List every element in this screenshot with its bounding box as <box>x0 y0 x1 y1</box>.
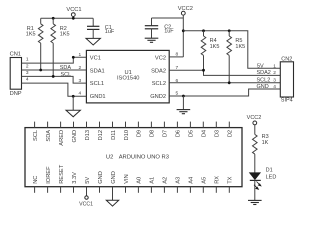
svg-text:A5: A5 <box>202 177 208 184</box>
svg-text:VCC2: VCC2 <box>247 115 262 121</box>
node VCC1 (bottom, at U2 5V pin) <box>85 196 88 199</box>
svg-text:TX: TX <box>228 176 234 183</box>
svg-text:VC2: VC2 <box>155 55 166 61</box>
ground below U1 GND1 <box>66 110 80 117</box>
svg-text:1: 1 <box>273 63 276 69</box>
svg-text:GND1: GND1 <box>90 94 106 100</box>
svg-text:SDA2: SDA2 <box>257 70 271 76</box>
junction R5 top <box>228 29 231 32</box>
svg-text:SCL: SCL <box>60 72 71 78</box>
U2 bottom pin GND <box>99 187 101 193</box>
wire CN1 pin4 to U1 GND1 <box>22 83 87 96</box>
op-amp U1 ISO1540 body <box>86 50 169 103</box>
svg-text:1K5: 1K5 <box>210 44 220 50</box>
svg-text:GND2: GND2 <box>150 94 166 100</box>
svg-text:1K: 1K <box>262 140 269 146</box>
svg-text:A4: A4 <box>189 177 195 184</box>
svg-text:4: 4 <box>26 77 29 83</box>
svg-text:SCL: SCL <box>33 130 39 141</box>
wire U1 GND2 pin5 to CN2 <box>169 89 280 96</box>
mcu U2 ARDUINO UNO R3 body <box>25 128 242 187</box>
svg-text:1K5: 1K5 <box>235 44 245 50</box>
svg-text:A0: A0 <box>137 177 143 184</box>
svg-text:D7: D7 <box>163 130 169 137</box>
U2 bottom pin A3 <box>176 187 178 193</box>
svg-text:ARDUINO UNO R3: ARDUINO UNO R3 <box>119 155 169 161</box>
svg-text:IOREF: IOREF <box>46 166 52 184</box>
svg-text:D2: D2 <box>228 130 234 137</box>
svg-text:D13: D13 <box>85 130 91 140</box>
svg-text:3.3V: 3.3V <box>72 172 78 184</box>
svg-text:D3: D3 <box>215 130 221 137</box>
svg-text:A3: A3 <box>176 177 182 184</box>
U2 top pin SDA <box>47 122 49 128</box>
U2 top pin D12 <box>99 122 101 128</box>
ground below C1 <box>86 38 100 45</box>
junction VC1 node <box>72 56 75 59</box>
ground below D1 <box>248 199 262 201</box>
svg-text:5V: 5V <box>257 63 264 69</box>
U2 top pin D11 <box>112 122 114 128</box>
svg-text:VCC1: VCC1 <box>66 7 81 13</box>
connector CN2 <box>280 62 293 97</box>
U2 top pin D4 <box>202 122 204 128</box>
svg-text:D6: D6 <box>176 130 182 137</box>
wire SDA net CN1 pin2 to U1 SDA1 <box>22 69 87 71</box>
svg-text:CN1: CN1 <box>10 51 21 57</box>
U2 top pin D3 <box>215 122 217 128</box>
U2 top pin D7 <box>163 122 165 128</box>
svg-text:RESET: RESET <box>59 164 65 183</box>
svg-text:VCC2: VCC2 <box>178 6 193 12</box>
wire C2 to VCC2 <box>152 17 184 19</box>
ground below U1 GND2 <box>177 109 191 111</box>
svg-text:1K5: 1K5 <box>26 31 36 37</box>
svg-text:LED: LED <box>266 175 277 181</box>
svg-text:GND: GND <box>257 84 269 90</box>
U2 bottom pin GND <box>112 187 114 201</box>
U2 bottom pin A5 <box>202 187 204 193</box>
resistor R2 <box>52 18 54 24</box>
U2 bottom pin A0 <box>137 187 139 193</box>
junction R5 bottom <box>228 81 231 84</box>
U2 bottom pin A2 <box>163 187 165 193</box>
U2 bottom pin TX <box>228 187 230 193</box>
wire U1 SDA2 pin7 to CN2 <box>169 70 280 75</box>
U2 top pin D5 <box>189 122 191 128</box>
svg-text:3: 3 <box>273 77 276 83</box>
U2 bottom pin 5V <box>86 187 88 196</box>
U2 bottom pin NC <box>34 187 36 193</box>
wire GND2 down <box>182 96 184 109</box>
svg-text:4: 4 <box>273 84 276 90</box>
svg-text:RX: RX <box>215 176 221 184</box>
U2 top pin ARED <box>60 122 62 128</box>
svg-text:D12: D12 <box>98 130 104 140</box>
resistor R4 <box>203 31 205 36</box>
svg-text:ISO1540: ISO1540 <box>117 76 139 82</box>
junction on VCC1 rail at R2 <box>52 17 55 20</box>
svg-text:GND: GND <box>111 171 117 184</box>
svg-text:SDA2: SDA2 <box>151 68 166 74</box>
svg-text:2: 2 <box>26 63 29 69</box>
svg-text:3: 3 <box>26 70 29 76</box>
U2 bottom pin IOREF <box>47 187 49 193</box>
junction VCC2 vertical <box>182 29 185 32</box>
junction on VCC1 rail at VCC1 lead <box>72 17 75 20</box>
U2 top pin D8 <box>150 122 152 128</box>
U2 top pin SCL <box>34 122 36 128</box>
U2 bottom pin A1 <box>150 187 152 193</box>
resistor R1 <box>40 18 42 24</box>
U2 top pin D2 <box>228 122 230 128</box>
svg-text:SIP4: SIP4 <box>281 98 293 104</box>
svg-text:D10: D10 <box>124 130 130 140</box>
svg-text:SCL2: SCL2 <box>257 77 271 83</box>
svg-text:5V: 5V <box>85 177 91 184</box>
wire U1 SCL2 pin6 to CN2 <box>169 82 280 84</box>
junction R4 top <box>202 29 205 32</box>
svg-text:GND: GND <box>72 130 78 143</box>
U2 bottom pin 3.3V <box>73 187 75 193</box>
svg-text:DNP: DNP <box>10 91 22 97</box>
svg-text:SCL2: SCL2 <box>152 81 166 87</box>
resistor R3 <box>253 134 258 154</box>
U2 bottom pin A4 <box>189 187 191 193</box>
svg-text:VC1: VC1 <box>90 55 101 61</box>
svg-text:U2: U2 <box>106 155 113 161</box>
svg-text:1uF: 1uF <box>164 28 174 34</box>
svg-text:D11: D11 <box>111 130 117 140</box>
svg-text:A2: A2 <box>163 177 169 184</box>
junction R4 bottom <box>202 69 205 72</box>
svg-text:CN2: CN2 <box>281 56 292 62</box>
ground below C2 <box>145 37 159 39</box>
wire GND1 down <box>72 96 74 110</box>
capacitor C2 <box>151 18 153 25</box>
U2 top pin D6 <box>176 122 178 128</box>
capacitor C1 <box>92 18 94 26</box>
svg-text:SDA1: SDA1 <box>90 68 105 74</box>
svg-text:D1: D1 <box>266 168 273 174</box>
svg-text:D5: D5 <box>189 130 195 137</box>
svg-text:SDA: SDA <box>46 130 52 142</box>
svg-text:4: 4 <box>78 91 81 97</box>
connector CN1 <box>10 58 21 90</box>
resistor R5 <box>228 31 230 36</box>
svg-text:D8: D8 <box>150 130 156 137</box>
svg-text:1uF: 1uF <box>105 29 115 35</box>
svg-text:VIN: VIN <box>124 174 130 183</box>
wire U1 VC2 pin8 <box>169 56 183 58</box>
ground below U2 GND pin <box>106 200 118 206</box>
svg-text:D9: D9 <box>137 130 143 137</box>
svg-text:NC: NC <box>33 176 39 184</box>
svg-text:R3: R3 <box>262 134 269 140</box>
U2 top pin GND <box>73 122 75 128</box>
svg-text:SCL1: SCL1 <box>90 81 104 87</box>
wire VCC1 rail <box>41 17 93 19</box>
U2 bottom pin VIN <box>125 187 127 193</box>
junction GND2 node <box>182 95 185 98</box>
svg-text:A1: A1 <box>150 177 156 184</box>
svg-text:SDA: SDA <box>60 65 72 71</box>
U2 top pin D13 <box>86 122 88 128</box>
svg-text:GND: GND <box>98 171 104 184</box>
svg-text:VCC1: VCC1 <box>79 201 93 207</box>
U2 bottom pin RESET <box>60 187 62 193</box>
junction R2 bottom on SCL <box>52 75 55 78</box>
LED D1 <box>250 173 260 179</box>
wire SCL net CN1 pin3 to U1 SCL1 <box>22 76 87 83</box>
U2 top pin D10 <box>125 122 127 128</box>
svg-text:1: 1 <box>26 57 29 63</box>
wire CN1 pin1 to VCC1/U1 VC1 <box>22 57 87 63</box>
junction GND1 node <box>72 95 75 98</box>
U2 top pin D9 <box>137 122 139 128</box>
wire VCC2 rail to R4 R5 and CN2 5V <box>183 31 280 69</box>
svg-text:D4: D4 <box>202 130 208 137</box>
svg-text:2: 2 <box>273 70 276 76</box>
svg-text:1K5: 1K5 <box>60 31 70 37</box>
svg-text:ARED: ARED <box>59 130 65 146</box>
U2 bottom pin RX <box>215 187 217 193</box>
junction R1 bottom on SDA <box>39 69 42 72</box>
